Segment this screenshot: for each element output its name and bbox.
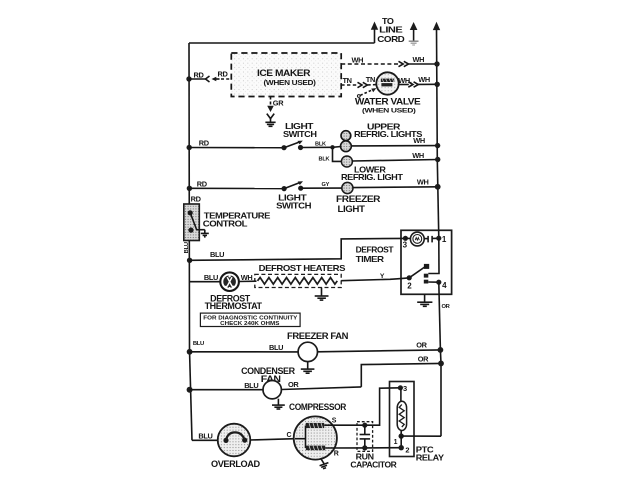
timer motor contact bars (424, 236, 439, 243)
wire: BLU row to defrost timer terminal 3 (190, 238, 406, 260)
label: TEMPERATURE CONTROL (203, 210, 271, 228)
svg-text:WH: WH (417, 178, 429, 187)
svg-text:BLU: BLU (184, 242, 190, 253)
svg-text:2: 2 (407, 281, 412, 290)
node: junction right rail freezer (435, 184, 441, 190)
svg-text:(WHEN USED): (WHEN USED) (264, 80, 316, 87)
temperature control TC1 (184, 204, 200, 241)
wire: TN from ice maker to water valve (341, 82, 376, 87)
wire: WH from valve to right rail (399, 82, 438, 87)
svg-text:(WHEN USED): (WHEN USED) (362, 107, 416, 114)
node: BLU junction row E (187, 258, 192, 263)
svg-text:THERMOSTAT: THERMOSTAT (205, 301, 263, 311)
label: UPPER REFRIG. LIGHTS (354, 122, 423, 140)
svg-text:CAPACITOR: CAPACITOR (350, 460, 396, 470)
wire: Y to timer terminal 2 (341, 278, 409, 281)
PTC relay box (390, 382, 415, 457)
svg-text:WH: WH (413, 136, 425, 145)
svg-text:SWITCH: SWITCH (283, 129, 317, 139)
label: DEFROST TIMER (356, 244, 395, 263)
node: BLU junction condenser fan (187, 387, 193, 393)
node: junction OR freezer fan (438, 347, 444, 353)
svg-text:S: S (332, 418, 337, 425)
svg-text:BLU: BLU (204, 273, 218, 282)
node: junction on right rail (WH) (434, 61, 439, 66)
node: junction right rail lower light (435, 157, 440, 162)
wire: freezer fan row left (190, 351, 299, 353)
svg-text:C: C (287, 432, 292, 439)
wire: S line to run capacitor and PTC 3 (324, 388, 400, 425)
svg-text:DEFROST HEATERS: DEFROST HEATERS (259, 263, 346, 273)
svg-text:SWITCH: SWITCH (276, 200, 311, 210)
label: RD RD (194, 70, 229, 80)
svg-text:1: 1 (442, 235, 447, 244)
label: LIGHT SWITCH (lower) (276, 193, 311, 211)
node: RD junction row B (187, 145, 192, 150)
wire: freezer lamp to right rail (353, 186, 438, 189)
label: TO LINE CORD (377, 16, 404, 44)
svg-text:FREEZER: FREEZER (336, 194, 381, 204)
svg-text:BLU: BLU (244, 381, 258, 390)
svg-text:OR: OR (418, 355, 429, 364)
wire: RD lead to ice maker (189, 76, 231, 82)
svg-text:ICE MAKER: ICE MAKER (257, 68, 311, 78)
wire: R line to run capacitor and PTC 2 (325, 447, 401, 449)
svg-text:OR: OR (416, 341, 427, 350)
svg-text:GY: GY (322, 182, 330, 188)
svg-text:TN: TN (366, 75, 375, 84)
svg-text:OR: OR (288, 380, 299, 389)
lamp: upper refrig lights (341, 131, 352, 152)
node: junction OR jog (438, 361, 444, 367)
node: timer terminal 3 (403, 236, 408, 250)
label: LOWER REFRIG. LIGHT (341, 164, 404, 182)
wire: terminal 1 down to contact (428, 238, 439, 273)
node: PTC terminal 1 (394, 433, 404, 446)
wire: BLK branch to lower lamp (333, 147, 342, 161)
svg-text:BLK: BLK (315, 141, 326, 147)
svg-text:BLU: BLU (269, 343, 283, 352)
svg-text:TN: TN (343, 76, 352, 85)
svg-text:OR: OR (442, 304, 451, 310)
wire: BLU to defrost thermostat (190, 281, 220, 283)
compressor motor M2 (294, 416, 337, 459)
svg-text:OVERLOAD: OVERLOAD (211, 459, 261, 469)
svg-text:TIMER: TIMER (356, 254, 384, 264)
node: junction on right rail (TN/WH) (435, 82, 440, 87)
svg-text:LIGHT: LIGHT (338, 204, 366, 214)
fan motor: condenser fan (263, 381, 281, 399)
wire: right rail lower segment (439, 282, 441, 436)
svg-text:WH: WH (413, 55, 425, 64)
defrost timer box (401, 230, 452, 294)
node: timer terminal 1 (436, 235, 447, 244)
node: grounded plug arrow (409, 22, 419, 45)
run capacitor C1 (357, 422, 373, 452)
wire: OR jog row (361, 363, 441, 387)
svg-text:BLU: BLU (198, 431, 212, 440)
lamp: lower refrig light (341, 156, 352, 167)
label: RUN CAPACITOR (350, 451, 396, 469)
label: WH WH (398, 75, 430, 85)
wire: overload to compressor C (250, 439, 295, 440)
svg-text:CHECK 240K OHMS: CHECK 240K OHMS (220, 321, 279, 327)
wire: switch to freezer lamp (301, 187, 342, 189)
PTC element (397, 388, 406, 436)
note: diagnostic box (200, 313, 300, 327)
wire: upper lamps to right rail (351, 145, 438, 147)
wire: lower lamp to right rail (352, 160, 437, 162)
wire: PTC 1 to right rail (401, 435, 441, 437)
wire: rail bottom to overload (192, 439, 218, 441)
node: RD junction row A (186, 76, 191, 81)
svg-text:RD: RD (199, 139, 210, 148)
switch: light switch 2 (282, 181, 304, 191)
svg-text:RD: RD (197, 179, 208, 188)
svg-text:WH: WH (352, 56, 364, 65)
svg-text:REFRIG. LIGHT: REFRIG. LIGHT (341, 172, 404, 182)
lamp: freezer light (342, 182, 353, 193)
switch: light switch 1 (281, 141, 303, 151)
label: WH WH (352, 55, 425, 65)
label: FREEZER LIGHT (336, 194, 381, 214)
ground: ice maker GR (265, 114, 275, 127)
svg-text:WH: WH (418, 75, 430, 84)
wire: right rail (top) (433, 22, 440, 238)
node: junction right rail row B (435, 143, 440, 148)
svg-text:WATER VALVE: WATER VALVE (355, 96, 421, 106)
ground: compressor case (320, 459, 329, 469)
svg-text:BLK: BLK (319, 156, 330, 162)
switch: timer contacts (409, 264, 429, 284)
wire: left rail (189, 43, 192, 440)
wire: condenser fan to OR jog (281, 387, 361, 390)
overload protector OL1 (218, 424, 251, 457)
label: TN TN (343, 75, 375, 85)
label: WATER VALVE (WHEN USED) (355, 96, 421, 114)
svg-text:GR: GR (273, 98, 284, 107)
svg-text:FREEZER FAN: FREEZER FAN (287, 331, 348, 341)
svg-text:RELAY: RELAY (416, 453, 445, 463)
svg-text:4: 4 (442, 281, 447, 290)
wire: GR drop from ice maker (267, 97, 274, 113)
svg-text:CORD: CORD (377, 34, 404, 44)
svg-text:BLU: BLU (193, 341, 204, 347)
wire: lower contact to terminal 4 (428, 281, 439, 283)
svg-text:CONTROL: CONTROL (203, 219, 248, 229)
ground: freezer fan (301, 362, 315, 374)
svg-text:WH,: WH, (398, 76, 412, 85)
node: line cord arrow (371, 22, 378, 44)
node: PTC terminal 3 (398, 384, 407, 393)
timer motor M1 (405, 232, 424, 246)
ground: condenser fan (272, 399, 285, 409)
node: RD junction row C (187, 186, 192, 191)
wire: temp control bleed to ground (196, 229, 205, 231)
svg-text:LINE: LINE (379, 24, 403, 34)
wire: condenser fan row left (190, 389, 264, 391)
node: BLK junction (330, 145, 334, 149)
defrost thermostat DT1 (220, 272, 239, 291)
svg-text:WH: WH (412, 151, 424, 160)
svg-text:R: R (334, 450, 339, 457)
label: CONDENSER FAN (241, 366, 295, 384)
node: timer terminal 4 (436, 280, 447, 290)
node: PTC terminal 2 (399, 445, 410, 455)
wire: PTC 1 to 2 (400, 436, 402, 448)
wire: WH from ice maker to right rail (341, 61, 437, 66)
svg-text:RD: RD (218, 70, 229, 79)
wire: row B to switch (189, 147, 284, 149)
wire: top rail (189, 42, 375, 44)
ice maker box (231, 53, 341, 97)
svg-text:BLU: BLU (210, 250, 224, 259)
node: BLU junction freezer fan (187, 349, 193, 355)
svg-text:2: 2 (405, 446, 409, 455)
ground: defrost timer (417, 294, 432, 306)
svg-text:RD: RD (194, 70, 205, 79)
fan motor: freezer fan (298, 342, 317, 361)
ground: defrost heaters (315, 288, 329, 301)
svg-text:1: 1 (394, 439, 398, 446)
svg-text:3: 3 (403, 384, 407, 393)
svg-text:RD: RD (191, 194, 202, 203)
wire: thermostat to heater (239, 280, 257, 282)
defrost heaters R1 (255, 274, 341, 287)
wire: row C to switch (189, 187, 284, 189)
svg-text:3: 3 (403, 240, 408, 249)
svg-text:COMPRESSOR: COMPRESSOR (289, 402, 347, 412)
label: LIGHT SWITCH (upper) (283, 121, 317, 139)
label: PTC RELAY (416, 445, 445, 463)
water valve WV1 (376, 72, 398, 94)
wire: valve actuator dashed arrow (357, 88, 376, 97)
ground: temperature control (201, 230, 209, 238)
node: timer terminal 2 (407, 275, 413, 290)
wire: freezer fan to right rail (318, 350, 441, 352)
wire: switch to BLK junction (301, 146, 333, 148)
wire: to upper lamps (333, 146, 342, 149)
label: DEFROST THERMOSTAT (205, 293, 263, 311)
